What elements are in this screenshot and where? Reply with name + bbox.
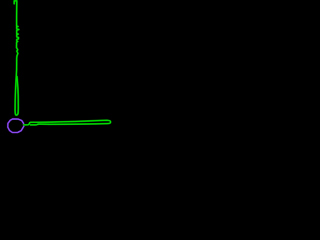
node A: purple circle core [8, 119, 24, 133]
wire: horizontal green stroke core [24, 120, 111, 125]
node A: purple circle halo [8, 119, 24, 133]
wire: horizontal green stroke halo [24, 120, 111, 125]
wire: vertical green stroke halo [14, 1, 19, 115]
wire: vertical green stroke core [14, 1, 19, 115]
